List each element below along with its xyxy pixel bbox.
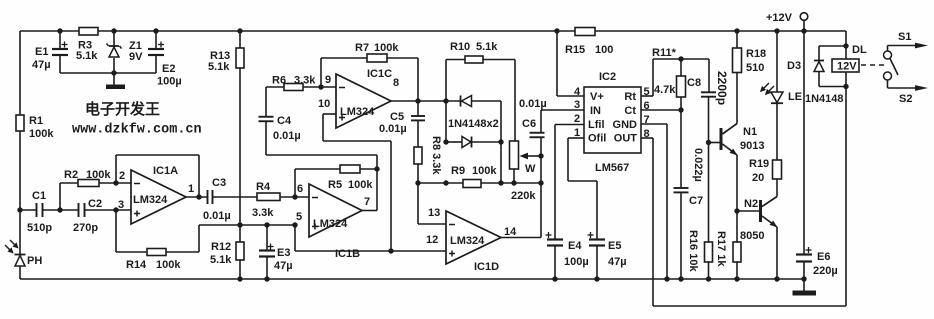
label C3	[212, 177, 226, 189]
node diode-R9 junction	[443, 180, 448, 185]
svg-text:20: 20	[752, 172, 764, 184]
wire R10 right	[483, 59, 515, 61]
wire left edge upper	[19, 31, 21, 115]
capacitor E6	[796, 247, 812, 262]
arrow S1	[915, 43, 928, 49]
svg-text:C3: C3	[212, 177, 226, 189]
wire V+ to pin4	[557, 95, 584, 97]
svg-text:9V: 9V	[129, 51, 143, 63]
op-amp IC1C	[336, 74, 391, 128]
wire top diode right	[472, 100, 501, 102]
wire E5 bottom lead	[596, 246, 598, 280]
wire bottom diode right	[472, 141, 502, 143]
label R4	[256, 181, 271, 193]
wire N1 base wire	[709, 142, 720, 144]
transistor N2 8050	[759, 197, 778, 228]
capacitor C3	[208, 190, 213, 204]
node Z1 top	[111, 28, 116, 33]
svg-text:Ofil: Ofil	[588, 133, 606, 145]
svg-text:510p: 510p	[27, 222, 52, 234]
wire IC1A output	[186, 196, 208, 198]
resistor R1	[16, 115, 24, 131]
wire diode left column	[445, 101, 447, 142]
node R8 bottom junction	[415, 180, 420, 185]
wire LE top riser	[776, 31, 778, 92]
resistor R8	[414, 147, 422, 164]
svg-text:5.1k: 5.1k	[476, 41, 498, 53]
svg-text:1N4148x2: 1N4148x2	[448, 118, 499, 130]
label E5	[608, 240, 621, 252]
label 1N4148x2	[448, 118, 499, 130]
label C5	[390, 111, 404, 123]
IC U2 LM567 body	[584, 87, 641, 153]
wire diode right column lower	[500, 142, 502, 183]
wire pin13 riser	[417, 183, 419, 224]
svg-text:47µ: 47µ	[274, 260, 293, 272]
svg-text:R8 3.3k: R8 3.3k	[430, 136, 442, 175]
wire R18 top lead	[736, 31, 738, 48]
svg-text:IC1C: IC1C	[367, 68, 392, 80]
label C1	[32, 190, 46, 202]
value R4 3.3k	[252, 207, 274, 219]
svg-text:R12: R12	[211, 241, 231, 253]
value R9 100k	[472, 165, 497, 177]
wire ground stem Z1	[113, 73, 115, 85]
wire N1 collector riser	[736, 73, 738, 124]
value D3 1N4148	[805, 93, 844, 105]
wire R13 top lead	[239, 31, 241, 48]
wire R5 right	[360, 168, 377, 170]
resistor R5	[340, 165, 360, 173]
node pin9 junction	[318, 84, 323, 89]
resistor R4	[257, 193, 280, 201]
wire C8 top lead	[708, 59, 710, 93]
resistor R13	[236, 48, 244, 68]
wire left edge lower	[19, 266, 21, 280]
svg-text:R15: R15	[565, 44, 585, 56]
svg-text:100µ: 100µ	[157, 76, 182, 88]
wire relay top riser	[845, 31, 847, 59]
wire R2 to pin2	[99, 182, 131, 184]
wire R5 left	[295, 168, 340, 170]
svg-text:E3: E3	[277, 247, 290, 259]
wire IC1B output	[362, 210, 377, 212]
wire C7 bottom lead	[680, 193, 682, 280]
wire S1 out	[888, 45, 917, 47]
svg-text:3: 3	[574, 99, 580, 111]
label E3	[277, 247, 290, 259]
wire pin1 jog	[568, 180, 597, 182]
label R7	[355, 42, 369, 54]
label IC1B LM324	[313, 218, 348, 230]
wire S2 out	[888, 87, 917, 89]
svg-text:R5: R5	[328, 179, 342, 191]
label DL	[852, 44, 867, 56]
value R2 100k	[86, 169, 111, 181]
label R6	[272, 75, 286, 87]
value E4 100µ	[564, 256, 589, 268]
label R17 1k vertical	[715, 231, 727, 267]
op-amp IC1B	[309, 184, 362, 237]
svg-text:E1: E1	[35, 46, 48, 58]
label LM567	[595, 162, 629, 174]
title chinese text	[85, 100, 160, 118]
value C3 0.01µ	[203, 210, 231, 222]
wire E4 bottom lead	[554, 246, 556, 280]
svg-text:R6: R6	[272, 75, 286, 87]
switch arm	[890, 59, 898, 76]
switch S2 contact circle	[884, 72, 892, 80]
wire pin3 riser down	[115, 210, 117, 252]
title url text	[72, 123, 202, 138]
wire N2 collector riser	[776, 179, 778, 197]
pin 4 label	[574, 86, 581, 98]
pin 7 label	[364, 196, 370, 208]
potentiometer RP 220k body	[510, 141, 519, 169]
node R11 top	[678, 56, 683, 61]
node R18 top rail	[734, 28, 739, 33]
op-amp IC1A	[131, 170, 186, 224]
svg-text:E4: E4	[568, 240, 582, 252]
label IC1C	[367, 68, 392, 80]
node E2 top	[153, 28, 158, 33]
svg-text:7: 7	[364, 196, 370, 208]
wire R12 bottom lead	[239, 260, 241, 279]
wire pin8 riser	[652, 138, 654, 306]
node E4 bottom	[552, 276, 557, 281]
resistor R18	[733, 48, 742, 73]
wire C1 left	[20, 209, 37, 211]
node N2 base junction	[734, 208, 739, 213]
wire pin10 lead	[323, 113, 336, 115]
wire R10 left riser	[445, 60, 447, 102]
wire R6 left	[266, 86, 284, 88]
zener Z1	[109, 46, 119, 57]
wire pin5 riser	[294, 225, 296, 251]
wire E3 bottom lead	[266, 257, 268, 279]
transistor N1 9013	[720, 124, 738, 156]
node E3 bottom	[264, 276, 269, 281]
svg-text:LM324: LM324	[450, 235, 485, 247]
svg-text:100k: 100k	[156, 259, 181, 271]
capacitor C7	[674, 188, 689, 192]
value C4 0.01µ	[273, 130, 301, 142]
wire N2 emitter riser	[776, 227, 778, 279]
LED LE	[771, 92, 783, 103]
capacitor E3	[259, 244, 275, 257]
wire C4 upper lead	[265, 87, 267, 117]
LED LE emission arrows	[761, 83, 774, 94]
wire E6 riser	[803, 31, 805, 254]
node pin7 ground	[664, 276, 669, 281]
resistor R9	[463, 180, 481, 188]
wire R10 left	[446, 59, 465, 61]
wire R7 down to output	[417, 58, 419, 101]
value R7 100k	[374, 42, 399, 54]
svg-text:14: 14	[504, 226, 517, 238]
label S1	[898, 31, 911, 43]
svg-text:12: 12	[426, 234, 438, 246]
wire R14 riser up	[198, 225, 200, 252]
svg-text:220µ: 220µ	[813, 265, 838, 277]
pin 14 label	[504, 226, 517, 238]
wire C1-C2	[43, 209, 79, 211]
svg-text:100: 100	[595, 44, 613, 56]
label IC1B	[335, 248, 360, 260]
svg-text:C7: C7	[689, 195, 703, 207]
svg-text:R1: R1	[29, 115, 43, 127]
svg-text:220k: 220k	[511, 190, 536, 202]
diode D1 top 1N4148	[461, 96, 472, 107]
label R5	[328, 179, 342, 191]
wire E2 bottom lead	[155, 55, 157, 73]
IC2 V+ label	[590, 91, 604, 103]
svg-text:LM324: LM324	[340, 106, 375, 118]
IC2 Ct label	[624, 105, 636, 117]
svg-text:3: 3	[118, 199, 124, 211]
label R12	[211, 241, 231, 253]
svg-text:E5: E5	[608, 240, 621, 252]
wire R8 top lead	[417, 121, 419, 148]
svg-text:Ct: Ct	[624, 105, 636, 117]
wire Z1 bottom lead	[113, 58, 115, 73]
wire R8 bottom lead	[417, 164, 419, 183]
node pin5 bus junction	[292, 222, 297, 227]
label C2	[88, 198, 102, 210]
svg-text:S1: S1	[898, 31, 911, 43]
capacitor C6	[530, 133, 545, 138]
resistor R11	[677, 76, 686, 97]
wire R6 to pin9	[303, 86, 336, 88]
node bottom diode right	[498, 139, 503, 144]
wire pin13 lead	[418, 223, 446, 225]
value R3 5.1k	[76, 50, 98, 62]
svg-text:R14: R14	[126, 259, 147, 271]
wire pin7 lead	[641, 123, 667, 125]
wire left edge middle	[19, 131, 21, 254]
node IC1A output junction	[196, 194, 201, 199]
label R11	[652, 47, 677, 59]
node pin3 junction	[113, 207, 118, 212]
label R13	[210, 50, 230, 62]
wire R12 top lead	[239, 225, 241, 242]
node C1-R2 junction	[57, 207, 62, 212]
svg-text:C5: C5	[390, 111, 404, 123]
svg-text:0.01µ: 0.01µ	[519, 98, 547, 110]
svg-text:R18: R18	[746, 48, 766, 60]
node E5 bottom	[594, 276, 599, 281]
svg-text:电子开发王: 电子开发王	[85, 100, 160, 118]
wire R14 right	[166, 251, 199, 253]
wire R17 bottom lead	[736, 262, 738, 279]
pin 6 label IC2	[644, 100, 650, 112]
node N1 base junction	[706, 140, 711, 145]
node D3 top junction	[843, 43, 848, 48]
label N2	[744, 198, 758, 210]
pin 3 label	[118, 199, 124, 211]
label R8 3.3k vertical	[430, 136, 442, 175]
wire R5 riser	[294, 169, 296, 197]
wire V+ riser	[556, 31, 558, 96]
label R10	[450, 41, 470, 53]
wire E6 bottom lead	[803, 262, 805, 280]
pin 12 label	[426, 234, 438, 246]
node LE top rail	[774, 28, 779, 33]
svg-text:100k: 100k	[472, 165, 497, 177]
svg-text:8: 8	[393, 77, 399, 89]
switch S1 contact circle	[884, 51, 892, 59]
resistor R3	[79, 28, 98, 36]
pin 8 label	[393, 77, 399, 89]
svg-text:12V: 12V	[837, 61, 857, 73]
label E4	[568, 240, 582, 252]
value C7 0.022µ vertical	[692, 148, 704, 182]
diode D3 1N4148	[814, 61, 824, 72]
svg-text:R19: R19	[749, 158, 769, 170]
label C4	[277, 115, 292, 127]
value R18 510	[746, 62, 764, 74]
wire pin6 lead	[641, 109, 681, 111]
svg-text:270p: 270p	[73, 222, 98, 234]
wire R9 bus right	[481, 182, 541, 184]
wire C3 to R4	[213, 196, 258, 198]
node D3 bottom junction	[843, 84, 848, 89]
wire top rail left segment	[20, 30, 79, 32]
svg-text:C8: C8	[687, 77, 701, 89]
label R18	[746, 48, 766, 60]
svg-text:47µ: 47µ	[608, 256, 627, 268]
resistor R14	[147, 249, 166, 256]
svg-text:www.dzkfw.com.cn: www.dzkfw.com.cn	[72, 123, 202, 138]
wire C8 bottom lead	[708, 97, 710, 143]
node bus-wiper junction	[538, 180, 543, 185]
photodiode PH	[15, 255, 26, 267]
node wiper junction	[538, 153, 543, 158]
svg-text:IC1B: IC1B	[335, 248, 360, 260]
IC2 Ofil label	[588, 133, 606, 145]
svg-text:4: 4	[574, 86, 581, 98]
wire D3 top wire	[819, 45, 846, 47]
wire R11 top lead	[680, 59, 682, 76]
svg-text:IC2: IC2	[599, 71, 616, 83]
svg-text:0.01µ: 0.01µ	[379, 123, 407, 135]
wire wiper column	[540, 156, 542, 238]
svg-text:4.7k: 4.7k	[654, 84, 676, 96]
svg-text:5.1k: 5.1k	[208, 61, 230, 73]
capacitor C2	[79, 203, 85, 217]
pin 5 label	[296, 211, 302, 223]
node R16 bottom	[706, 276, 711, 281]
svg-text:0.022µ: 0.022µ	[692, 148, 704, 182]
IC2 Rt label	[624, 91, 636, 103]
value R13 5.1k	[208, 61, 230, 73]
label R14	[126, 259, 147, 271]
svg-text:100k: 100k	[374, 42, 399, 54]
svg-text:0.01µ: 0.01µ	[203, 210, 231, 222]
IC2 GND label	[613, 119, 638, 131]
wire R10 right riser	[514, 60, 516, 142]
node R5 output junction	[374, 166, 379, 171]
wire R16 lead	[708, 143, 710, 243]
wire C6 bottom lead	[540, 137, 542, 156]
value C2 270p	[73, 222, 98, 234]
resistor R6	[284, 84, 303, 91]
resistor R2	[78, 180, 99, 187]
value R15 100	[595, 44, 613, 56]
resistor R10	[465, 56, 483, 63]
label Z1	[129, 40, 142, 52]
wire output riser	[376, 169, 378, 211]
svg-text:510: 510	[746, 62, 764, 74]
wire vref bus 251	[295, 250, 446, 252]
value R5 100k	[348, 179, 373, 191]
node diode column bus junction	[498, 180, 503, 185]
capacitor E4	[546, 232, 564, 246]
wire R2 left	[60, 182, 78, 184]
wire R13 to bus	[239, 68, 241, 225]
wire Z1 top lead	[113, 31, 115, 46]
value E5 47µ	[608, 256, 627, 268]
wire pin2 lead	[555, 124, 584, 126]
svg-text:GND: GND	[613, 119, 638, 131]
svg-text:LM324: LM324	[133, 194, 168, 206]
wire N2 base wire	[737, 210, 759, 212]
wire pin8 lead	[641, 137, 653, 139]
wire reference bus	[199, 224, 295, 226]
value C8 2200p vertical	[715, 71, 729, 105]
wire pin1 lead	[568, 137, 584, 139]
op-amp IC1D	[446, 211, 501, 264]
node pin6 junction	[292, 194, 297, 199]
value R19 20	[752, 172, 764, 184]
wire pin10 riser	[322, 114, 324, 141]
pin 6 label	[297, 183, 303, 195]
svg-text:V+: V+	[590, 91, 604, 103]
wire diode right column upper	[500, 101, 502, 142]
svg-text:R4: R4	[256, 181, 271, 193]
label R9	[451, 165, 465, 177]
node IC1C output junction	[415, 98, 420, 103]
svg-text:DL: DL	[852, 44, 867, 56]
svg-text:D3: D3	[787, 60, 801, 72]
node pin6 C7 junction	[678, 107, 683, 112]
label IC2	[599, 71, 616, 83]
wire LE to R19	[776, 103, 778, 160]
value 220k	[511, 190, 536, 202]
wire C4 lower lead	[265, 122, 267, 156]
wire R2 riser	[59, 183, 61, 210]
resistor R12	[236, 242, 244, 260]
ground symbol left	[106, 85, 125, 90]
label R3	[78, 40, 92, 52]
IC2 IN label	[590, 105, 601, 117]
potentiometer wiper arrow	[520, 153, 542, 160]
svg-text:E6: E6	[817, 251, 830, 263]
label PH	[27, 255, 42, 267]
wire IC1C output	[391, 100, 461, 102]
svg-text:100k: 100k	[86, 169, 111, 181]
node IC2 V+ junction	[554, 28, 559, 33]
ground symbol right	[793, 291, 817, 296]
label +12V	[766, 12, 793, 24]
capacitor C4	[259, 117, 274, 122]
node R12 bottom	[237, 276, 242, 281]
wire pin10 down to vref	[390, 141, 392, 251]
svg-text:9013: 9013	[740, 140, 764, 152]
label E1	[35, 46, 48, 58]
value C1 510p	[27, 222, 52, 234]
wire relay bottom lead	[845, 72, 847, 87]
